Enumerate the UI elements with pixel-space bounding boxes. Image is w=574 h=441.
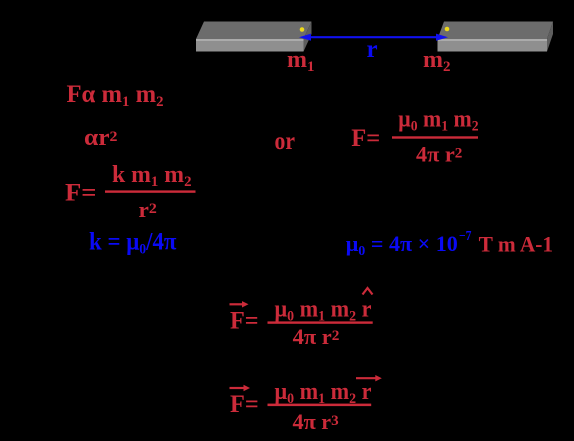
caret hat over r: [363, 288, 373, 295]
svg-text:k = μ0/4π: k = μ0/4π: [89, 228, 177, 257]
magnet bar right: top edge highlight: [438, 39, 548, 41]
svg-text:F=: F=: [65, 180, 97, 207]
svg-text:F=: F=: [230, 391, 259, 418]
magnet bar right: yellow pole dot: [445, 27, 450, 32]
distance arrow r (double headed blue): [299, 34, 448, 41]
magnet bar right: front face: [438, 41, 548, 52]
fraction bar: [105, 190, 196, 192]
magnet bar left: right side face: [304, 22, 312, 52]
vector arrow over F: [230, 301, 249, 307]
magnet bar left: front face: [196, 41, 304, 52]
svg-text:−7: −7: [459, 228, 472, 243]
magnet bar left: top edge highlight: [196, 39, 304, 41]
magnet bar left: top face: [196, 22, 312, 40]
svg-text:T m A-1: T m A-1: [479, 232, 553, 257]
fraction bar: [392, 136, 478, 138]
fraction bar: [268, 321, 373, 323]
svg-text:or: or: [275, 128, 296, 155]
svg-text:μ0 m1 m2: μ0 m1 m2: [398, 107, 478, 135]
svg-text:F=: F=: [351, 125, 380, 152]
svg-text:r: r: [367, 36, 378, 63]
magnet bar left: yellow pole dot: [300, 27, 305, 32]
vector arrow over r: [356, 375, 382, 381]
svg-text:Fα m1 m2: Fα m1 m2: [67, 81, 164, 110]
magnet bar right: top face: [438, 22, 554, 40]
svg-text:F=: F=: [230, 308, 259, 335]
vector arrow over F: [230, 385, 251, 391]
magnet bar right: right side face: [547, 22, 553, 52]
fraction bar: [268, 404, 372, 407]
